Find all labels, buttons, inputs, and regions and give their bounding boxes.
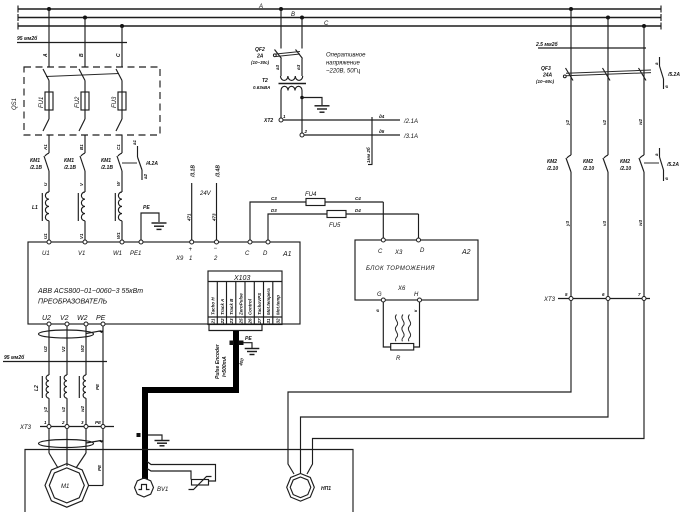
wire U2 drop [43,326,49,426]
svg-text:31: 31 [266,318,271,324]
inductor L2 pole 2 [60,375,67,398]
svg-text:23: 23 [229,318,234,325]
svg-text:471: 471 [187,213,192,222]
svg-text:С1: С1 [116,144,121,150]
svg-text:Х6: Х6 [397,286,406,292]
svg-text:Т2: Т2 [262,78,268,84]
svg-text:А1: А1 [43,144,48,151]
terminal PE bottom [96,315,106,326]
svg-text:v3: v3 [602,220,607,226]
breaker QF2 label [251,47,270,65]
svg-text:V2: V2 [60,315,69,322]
svg-text:Х9: Х9 [175,256,184,262]
svg-text:у2: у2 [565,119,570,126]
svg-text:Mot.tempera: Mot.tempera [266,288,271,315]
wire 220V L to panel [283,114,418,125]
svg-text:C: C [245,251,250,257]
svg-text:М1: М1 [61,484,69,490]
svg-text:22: 22 [220,318,225,325]
terminal W1 [113,240,124,257]
wire 24V supply 2 [211,165,221,240]
svg-text:W1: W1 [116,232,121,239]
wire motor PE [89,429,104,486]
svg-text:R: R [396,356,401,362]
svg-text:Track B: Track B [229,298,234,315]
terminal XT3:5 [565,292,573,301]
svg-text:W1: W1 [113,251,122,257]
contactor KM2 pole 1 label [546,159,558,172]
inductor L2 pole 1 [42,375,49,398]
svg-text:/2.10: /2.10 [546,166,558,172]
svg-text:ХТ2: ХТ2 [263,118,273,124]
svg-text:ХТ3: ХТ3 [543,297,556,303]
terminal D [263,240,270,257]
terminal U1 [42,240,51,257]
junction dots on buses [47,7,646,28]
terminal XT3:1 [44,420,51,429]
wire motor W [76,429,86,469]
fuse-switch pole 1 [43,69,53,131]
svg-text:2: 2 [304,129,308,134]
svg-text:/5.2А: /5.2А [666,162,679,168]
terminal X103 pin 27 Mot.tempera [266,288,271,324]
wire D3 [268,208,419,240]
brake unit A2 box [355,240,478,300]
machine frame outline [25,450,353,513]
fuse-switch pole 2 [79,69,89,131]
wire phase B drop [84,18,86,68]
wire PE drop [95,326,103,426]
svg-text:С4: С4 [355,196,361,201]
breaker QF3 label [536,66,555,84]
wire 220V N to panel [304,129,418,140]
terminal X103 pin 26 TachoVPS [257,293,262,325]
ground of cable shield lower [137,433,170,446]
contactor KM2 aux contact [644,148,669,181]
svg-text:Х103: Х103 [233,275,250,282]
svg-text:QS1: QS1 [12,98,18,110]
svg-text:PE: PE [95,383,100,390]
svg-text:BV1: BV1 [157,487,168,493]
label 95mm2 feeder gauge [17,35,127,43]
bus C [18,23,661,30]
svg-text:2: 2 [213,256,218,262]
svg-text:В: В [291,12,295,18]
terminal block X103 [208,271,282,325]
svg-text:А2: А2 [461,249,471,256]
brake resistor R [383,302,419,350]
svg-text:в3: в3 [296,64,301,70]
contactor KM1 pole 2 label [63,158,76,171]
label operating voltage note [326,53,366,75]
svg-text:U2: U2 [43,346,48,352]
svg-text:/2.1В: /2.1В [63,165,76,171]
wire W2 drop [80,326,86,426]
terminal PE1 [130,240,143,257]
svg-text:С: С [324,21,329,27]
wire right drop B [607,18,609,156]
breaker QF2 [273,9,302,59]
svg-text:/2.1В: /2.1В [100,165,113,171]
terminal U2 [42,315,51,326]
svg-text:С: С [116,53,122,57]
svg-text:напряжение: напряжение [326,61,360,67]
svg-text:FU2: FU2 [75,96,81,108]
svg-text:D3: D3 [271,208,277,213]
contactor KM2 pole 2 label [582,159,594,172]
svg-text:у3: у3 [565,220,570,227]
svg-text:в: в [664,177,669,180]
contactor KM1 pole 3 [117,153,122,192]
svg-text:ХТ3: ХТ3 [19,425,32,431]
svg-text:V2: V2 [61,346,66,352]
wire right drop C [643,26,645,155]
svg-text:32: 32 [275,318,280,324]
svg-text:НП1: НП1 [321,486,331,492]
contactor KM1 aux contact [122,139,148,180]
svg-text:КМ2: КМ2 [583,159,593,165]
contactor KM1 pole 3 label [100,158,113,171]
terminal X103 pin 23 Track B [229,298,234,325]
svg-text:W2: W2 [77,315,88,322]
breaker QF3 aux contact [654,57,669,89]
svg-text:26: 26 [248,318,253,325]
svg-text:Pulse Encoder: Pulse Encoder [215,343,221,379]
wire pump V [301,301,609,474]
terminal H [413,292,422,312]
svg-text:PE1: PE1 [130,251,141,257]
svg-text:FU3: FU3 [112,96,118,108]
svg-text:/3.4В: /3.4В [216,165,222,178]
svg-text:21: 21 [211,318,216,325]
svg-text:D: D [263,251,268,257]
svg-text:−: − [214,246,218,252]
svg-text:КМ2: КМ2 [547,159,557,165]
terminal XT2:1 [263,114,286,124]
svg-text:А: А [43,53,49,58]
svg-text:КМ1: КМ1 [64,158,74,164]
terminal XT2:2 [300,129,308,137]
terminal X103 pin 24 ZeroPulse [238,293,243,325]
wire labels right risers [565,118,643,126]
svg-text:д4: д4 [379,114,385,119]
terminal strip XT3 right [543,297,650,303]
svg-text:С3: С3 [271,196,277,201]
svg-text:QF3: QF3 [541,66,551,72]
wire thermistor 1 [147,462,216,482]
cable marker motor cable [39,330,104,338]
svg-text:C: C [378,249,383,255]
terminal W2 [77,315,88,326]
transformer T2 [279,59,307,134]
svg-text:(10−30с): (10−30с) [251,60,270,65]
wire pump U [288,301,571,475]
svg-text:Control: Control [248,298,253,315]
label 95mm2 motor cable gauge [3,354,107,362]
svg-text:Tacho H: Tacho H [211,297,216,315]
svg-text:v2: v2 [61,406,66,412]
svg-text:+: + [189,247,193,253]
wire pump W [307,301,644,475]
svg-text:w2: w2 [638,118,643,125]
svg-text:D4: D4 [355,208,361,213]
svg-text:473: 473 [211,213,216,222]
svg-text:/4.2А: /4.2А [145,161,158,167]
label 2.5mm2 control gauge [535,41,646,48]
svg-text:КМ1: КМ1 [30,158,40,164]
encoder cable shielded (thick) [145,331,239,479]
wire C1 [121,135,123,153]
contactor KM1 pole 2 [80,153,85,192]
svg-text:0.63кВА: 0.63кВА [253,85,270,90]
inductor L2 pole 3 [79,375,86,398]
wire motor V [66,429,68,467]
svg-text:в: в [664,85,669,88]
fuse FU5 [327,211,346,230]
wire 24V supply 1 [187,165,197,240]
svg-text:24V: 24V [199,191,212,197]
svg-text:PE: PE [143,205,150,211]
svg-text:1мм 2б: 1мм 2б [365,147,371,163]
svg-text:W2: W2 [80,345,85,352]
terminal V1 [78,240,87,257]
svg-text:2.5 мм2б: 2.5 мм2б [535,41,559,48]
svg-text:РЕ: РЕ [97,464,102,471]
svg-text:24А: 24А [542,73,553,79]
svg-text:w2: w2 [80,405,85,412]
svg-text:U2: U2 [42,315,51,322]
contactor KM2 pole 1 [566,155,571,299]
svg-text:/2.1В: /2.1В [29,165,42,171]
svg-text:/2.10: /2.10 [619,166,631,172]
converter A1 name label [37,288,143,306]
pump motor NP1 [287,474,315,502]
svg-text:FU5: FU5 [329,223,341,229]
svg-text:D: D [420,248,425,254]
cable clamp bracket under X103 [209,325,262,331]
terminal X3 C [378,238,385,255]
contactor KM2 pole 3 label [619,159,631,172]
terminal G [375,292,385,312]
switch QS1 linkage [46,74,119,77]
svg-text:д5: д5 [379,129,385,134]
svg-text:а2: а2 [143,173,148,179]
terminal X3 D [417,238,426,254]
terminal X103 pin 21 Tacho H [211,297,216,325]
contactor KM2 pole 3 [639,155,644,299]
svg-text:РЕ: РЕ [95,420,102,425]
terminal X103 pin 28 Mot.temp [275,295,280,324]
svg-text:I=500mA: I=500mA [222,356,228,377]
svg-text:1: 1 [189,256,192,262]
terminal X9:1 [175,240,194,262]
svg-text:Track A: Track A [220,299,225,315]
terminal X103 pin 25 Control [248,298,253,324]
svg-text:G: G [377,292,382,298]
terminal C [245,240,252,257]
terminal X9:2 [213,240,219,262]
wire V2 drop [61,326,67,426]
svg-text:PE: PE [96,315,106,322]
ground T2 secondary [300,96,329,113]
svg-text:Оперативное: Оперативное [326,53,366,59]
svg-text:U1: U1 [42,251,50,257]
svg-text:А1: А1 [282,251,292,258]
inductor L1 pole 1 [42,192,49,242]
cable marker motor leads [39,440,104,448]
svg-text:ПРЕОБРАЗОВАТЕЛЬ: ПРЕОБРАЗОВАТЕЛЬ [38,299,108,306]
thermistor RK motor [189,477,212,490]
svg-text:V1: V1 [79,233,84,239]
svg-text:А: А [258,4,263,10]
svg-text:у2: у2 [43,406,48,413]
terminal XT3:2 [61,420,69,429]
svg-text:В: В [79,53,85,57]
svg-text:АВВ ACS800−01−0060−3 55кВт: АВВ ACS800−01−0060−3 55кВт [37,288,143,295]
svg-text:TachoVPS: TachoVPS [257,293,262,315]
svg-text:КМ1: КМ1 [101,158,111,164]
breaker QF3 poles [563,68,651,81]
svg-text:L2: L2 [34,385,40,391]
svg-text:а1: а1 [132,139,137,145]
wire phase C drop [121,26,123,67]
terminal strip XT3 left [19,425,114,431]
wire number labels right [565,219,643,227]
wire thermistor 2 [147,469,191,480]
switch-fuse QS1 dashed enclosure [24,67,160,135]
ground PE of encoder cable shield [230,336,260,355]
ground PE at converter top [141,205,167,240]
motor M1 [45,464,89,508]
svg-text:/3.1В: /3.1В [191,165,197,178]
svg-text:2А: 2А [256,54,264,60]
svg-text:/2.1А: /2.1А [403,119,418,125]
svg-text:H: H [414,292,419,298]
svg-text:/3.1А: /3.1А [403,134,418,140]
svg-text:в: в [375,309,380,312]
terminal XT3:7 [638,292,646,301]
terminal block X103 cells [208,282,282,325]
svg-text:25: 25 [238,318,243,325]
wire phase A drop [48,9,50,67]
svg-text:v2: v2 [602,119,607,125]
svg-text:(10−60с): (10−60с) [536,79,555,84]
svg-text:QF2: QF2 [255,47,265,53]
svg-text:FU1: FU1 [39,97,45,108]
wire motor U [49,429,58,469]
terminal XT3:PE [95,420,105,429]
svg-text:L1: L1 [32,205,38,211]
contactor KM1 pole 1 label [29,158,42,171]
wire A1 [48,135,50,153]
terminal V2 [60,315,69,326]
svg-text:Mot.temp: Mot.temp [275,295,280,315]
svg-text:2: 2 [61,420,65,425]
svg-text:V1: V1 [78,251,85,257]
svg-text:В1: В1 [79,144,84,150]
svg-text:/5.2А: /5.2А [667,72,680,78]
wire B1 [84,135,86,153]
svg-text:/2.10: /2.10 [582,166,594,172]
svg-text:ZeroPulse: ZeroPulse [238,293,243,316]
fuse FU4 [305,192,325,206]
terminal XT3:3 [81,420,88,429]
fuse-switch pole 3 [116,69,126,131]
converter A1 box [28,242,300,324]
svg-text:U1: U1 [43,233,48,239]
svg-text:а3: а3 [275,64,280,70]
svg-text:95 мм2б: 95 мм2б [4,354,25,361]
svg-text:~220В, 50Гц: ~220В, 50Гц [326,69,361,75]
svg-text:Х3: Х3 [394,250,403,256]
svg-text:БЛОК ТОРМОЖЕНИЯ: БЛОК ТОРМОЖЕНИЯ [366,266,435,272]
wire right drop A [570,9,572,155]
transformer T2 label [253,78,270,90]
terminal XT3:6 [602,292,610,301]
bus B [18,14,661,21]
contactor KM2 pole 2 [603,155,608,299]
terminal X103 pin 22 Track A [220,299,225,325]
contactor KM1 pole 1 [44,153,49,192]
bus A [18,6,661,13]
label Pulse Encoder [215,343,228,379]
wire C3 [250,196,383,240]
inductor L1 pole 3 [115,192,122,242]
svg-text:PE: PE [245,336,252,342]
wire gauge divider 1mm2 [365,117,373,165]
svg-text:27: 27 [257,318,262,325]
svg-text:FU4: FU4 [305,192,317,198]
svg-text:w3: w3 [638,219,643,226]
inductor L1 pole 2 [78,192,85,242]
svg-text:95 мм2б: 95 мм2б [17,35,38,42]
svg-text:КМ2: КМ2 [620,159,630,165]
encoder BV1 [135,478,169,497]
